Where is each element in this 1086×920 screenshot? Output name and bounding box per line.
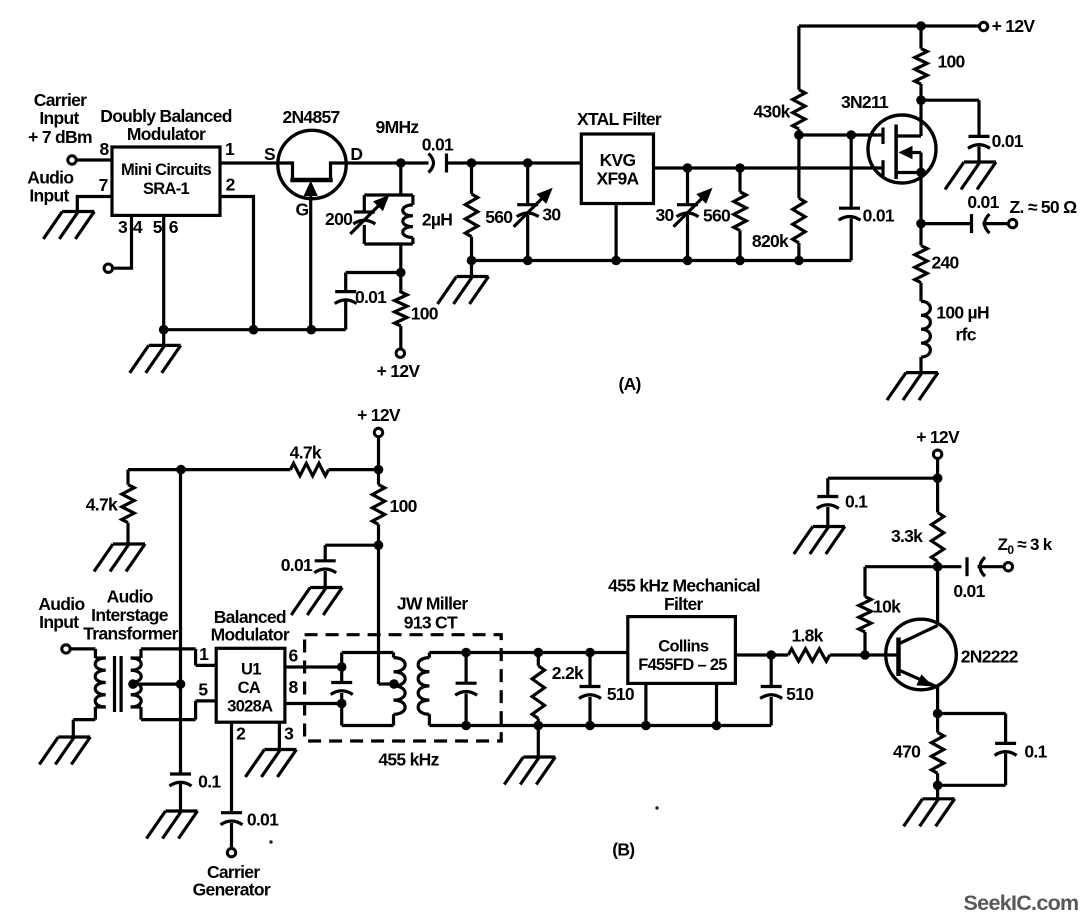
svg-text:G: G (296, 200, 309, 220)
svg-text:1.8k: 1.8k (791, 626, 823, 646)
svg-text:KVG: KVG (600, 150, 636, 170)
svg-text:CA: CA (238, 679, 261, 697)
svg-text:Modulator: Modulator (211, 625, 290, 645)
svg-text:XF9A: XF9A (597, 169, 640, 189)
svg-text:Input: Input (29, 186, 69, 206)
svg-text:0.01: 0.01 (967, 192, 999, 212)
svg-text:7: 7 (99, 175, 108, 195)
svg-text:430k: 430k (754, 101, 791, 121)
svg-text:Input: Input (39, 612, 79, 632)
svg-text:10k: 10k (873, 596, 901, 616)
svg-text:560: 560 (703, 206, 731, 226)
svg-text:100: 100 (411, 304, 439, 324)
svg-text:Interstage: Interstage (91, 605, 169, 625)
svg-text:+ 12V: + 12V (377, 361, 421, 381)
svg-text:30: 30 (655, 205, 674, 225)
svg-text:1: 1 (199, 644, 209, 664)
svg-text:455 kHz: 455 kHz (378, 749, 439, 769)
svg-text:0.01: 0.01 (422, 135, 454, 155)
svg-text:+ 12V: + 12V (992, 16, 1036, 36)
svg-text:Modulator: Modulator (127, 124, 206, 144)
svg-text:+ 12V: + 12V (357, 405, 401, 425)
svg-text:0.1: 0.1 (198, 771, 221, 791)
svg-text:100: 100 (937, 52, 965, 72)
svg-text:Audio: Audio (27, 168, 73, 188)
svg-text:5: 5 (153, 217, 163, 237)
svg-text:30: 30 (542, 205, 561, 225)
svg-text:Filter: Filter (664, 594, 703, 614)
svg-text:Z. ≈ 50 Ω: Z. ≈ 50 Ω (1010, 197, 1078, 217)
svg-text:100: 100 (390, 496, 418, 516)
svg-text:100 µH: 100 µH (936, 303, 989, 323)
svg-text:2: 2 (226, 175, 236, 195)
svg-text:Audio: Audio (38, 594, 84, 614)
svg-text:200: 200 (325, 209, 353, 229)
svg-text:1: 1 (225, 139, 235, 159)
svg-text:3: 3 (284, 723, 294, 743)
svg-text:3028A: 3028A (227, 698, 273, 716)
svg-text:913 CT: 913 CT (404, 613, 458, 633)
svg-text:0.01: 0.01 (992, 131, 1024, 151)
svg-text:(A): (A) (618, 374, 640, 394)
svg-text:4.7k: 4.7k (290, 442, 322, 462)
svg-text:0.01: 0.01 (863, 205, 895, 225)
svg-text:5: 5 (198, 680, 208, 700)
svg-text:510: 510 (786, 684, 814, 704)
svg-text:2: 2 (236, 723, 246, 743)
svg-text:(B): (B) (612, 839, 634, 859)
svg-text:9MHz: 9MHz (376, 117, 420, 137)
svg-text:4: 4 (133, 217, 143, 237)
svg-text:+ 12V: + 12V (916, 427, 960, 447)
svg-text:0.01: 0.01 (247, 809, 279, 829)
svg-text:3N211: 3N211 (841, 92, 889, 112)
svg-text:D: D (350, 144, 362, 164)
svg-text:2µH: 2µH (422, 210, 452, 230)
svg-text:rfc: rfc (956, 324, 977, 344)
svg-text:SeekIC.com: SeekIC.com (964, 891, 1079, 915)
svg-text:0.1: 0.1 (1024, 742, 1047, 762)
svg-text:0.01: 0.01 (953, 581, 985, 601)
svg-text:820k: 820k (752, 231, 789, 251)
svg-text:0.01: 0.01 (281, 555, 313, 575)
svg-text:0.01: 0.01 (355, 287, 387, 307)
svg-text:3: 3 (118, 217, 128, 237)
svg-text:6: 6 (288, 646, 298, 666)
svg-text:6: 6 (169, 217, 179, 237)
svg-text:3.3k: 3.3k (891, 526, 923, 546)
svg-text:XTAL Filter: XTAL Filter (577, 109, 662, 129)
svg-text:Collins: Collins (658, 638, 709, 656)
svg-text:455 kHz Mechanical: 455 kHz Mechanical (608, 576, 760, 596)
svg-text:Doubly Balanced: Doubly Balanced (100, 106, 231, 126)
svg-text:S: S (264, 144, 275, 164)
svg-text:4.7k: 4.7k (86, 495, 118, 515)
svg-text:Input: Input (39, 108, 79, 128)
svg-text:2N4857: 2N4857 (282, 107, 339, 127)
svg-text:240: 240 (931, 253, 959, 273)
svg-text:560: 560 (485, 207, 513, 227)
svg-text:0.1: 0.1 (845, 492, 868, 512)
svg-text:Generator: Generator (193, 880, 271, 900)
svg-text:Carrier: Carrier (34, 90, 87, 110)
svg-text:F455FD – 25: F455FD – 25 (638, 656, 727, 674)
svg-text:JW Miller: JW Miller (397, 594, 468, 614)
svg-text:+ 7 dBm: + 7 dBm (28, 127, 92, 147)
svg-text:Audio: Audio (107, 587, 153, 607)
svg-text:2.2k: 2.2k (552, 663, 584, 683)
svg-text:2N2222: 2N2222 (961, 646, 1019, 666)
svg-text:U1: U1 (241, 661, 261, 679)
svg-text:Mini Circuits: Mini Circuits (121, 161, 211, 179)
svg-text:Z0 ≈ 3 k: Z0 ≈ 3 k (998, 535, 1053, 557)
svg-text:8: 8 (288, 677, 298, 697)
svg-text:470: 470 (893, 742, 921, 762)
svg-text:8: 8 (99, 139, 109, 159)
svg-text:Transformer: Transformer (83, 624, 178, 644)
svg-text:SRA-1: SRA-1 (143, 180, 190, 198)
svg-text:510: 510 (607, 684, 635, 704)
